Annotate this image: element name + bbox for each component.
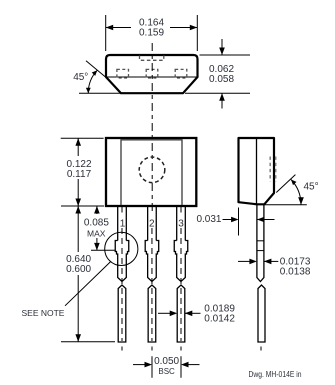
svg-text:0.050: 0.050 — [154, 356, 179, 367]
hidden lead 1 cross-section (dashed box) — [117, 69, 129, 78]
svg-text:45°: 45° — [73, 72, 88, 83]
dimension 0.062 / 0.058 (top view thickness) — [185, 39, 250, 109]
dimension 0.085 MAX (standoff) — [84, 206, 115, 250]
dimension 0.122 / 0.117 (body height) — [61, 138, 104, 206]
vertical centerline through both views — [151, 43, 153, 214]
svg-text:45°: 45° — [304, 182, 319, 193]
svg-text:0.600: 0.600 — [66, 264, 91, 275]
svg-text:Dwg. MH-014E in: Dwg. MH-014E in — [249, 370, 302, 379]
45-degree chamfer callout (top view, left) — [73, 61, 121, 94]
svg-text:0.117: 0.117 — [67, 169, 92, 180]
svg-text:0.0138: 0.0138 — [280, 267, 311, 278]
leader line — [65, 262, 111, 306]
svg-text:0.058: 0.058 — [209, 74, 234, 85]
SEE NOTE circle around lead 1 crimp — [22, 232, 138, 318]
dimension 0.164 / 0.159 (top width) — [106, 15, 198, 51]
front face inset (mold face) — [121, 140, 182, 205]
dimension 0.640 / 0.600 (lead length) — [61, 206, 115, 342]
dimension 0.0189 / 0.0142 (lead width) — [158, 304, 235, 325]
hidden tab (dashed box below top edge) — [140, 56, 164, 61]
svg-text:BSC: BSC — [158, 367, 175, 376]
side lead — [257, 204, 265, 353]
svg-text:0.085: 0.085 — [84, 218, 109, 229]
lead 3 (front view) — [174, 205, 188, 353]
dimension 0.0173 / 0.0138 (lead thickness) — [238, 256, 311, 277]
lead 1 (front view) — [115, 205, 129, 353]
svg-text:MAX: MAX — [87, 229, 106, 239]
45-degree chamfer callout (side view, right) — [265, 175, 319, 205]
hidden lead 3 cross-section (dashed box) — [175, 69, 187, 78]
package top-view outline — [106, 55, 198, 93]
svg-text:0.0142: 0.0142 — [204, 314, 235, 325]
package front-view body outline — [106, 138, 196, 206]
svg-text:SEE NOTE: SEE NOTE — [22, 308, 65, 318]
dashed circle (branding/ejector mark) — [139, 157, 165, 183]
hidden lead 2 cross-section (dashed box) — [146, 69, 158, 78]
svg-text:2: 2 — [149, 218, 155, 229]
hidden lead inside body (dashed) — [269, 157, 271, 182]
dimension 0.031 (lead offset) — [196, 208, 274, 236]
dimension 0.050 BSC (lead pitch) — [133, 356, 200, 378]
svg-text:3: 3 — [178, 218, 184, 229]
lead 2 (front view) — [145, 205, 159, 353]
mold parting line — [256, 138, 258, 204]
svg-text:0.031: 0.031 — [196, 214, 221, 225]
parting line (mid line of top view) — [106, 76, 198, 78]
package side-view outline — [239, 138, 276, 204]
svg-text:0.159: 0.159 — [139, 28, 164, 39]
svg-text:1: 1 — [120, 218, 126, 229]
